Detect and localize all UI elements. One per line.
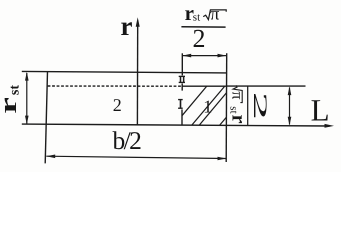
- denominator 2 rotated clockwise: [249, 92, 270, 121]
- L axis arrowhead: [325, 124, 335, 128]
- svg-text:st: st: [8, 85, 23, 95]
- dimension rst*sqrt(pi)/2 right: [289, 88, 291, 125]
- dimension rst*sqrt(pi)/2 top: [182, 55, 226, 57]
- label I: [178, 99, 183, 109]
- label II: [179, 76, 185, 83]
- dashed mid line: [48, 85, 182, 87]
- plate right edge: [225, 53, 228, 162]
- section line I-II segment above: [181, 53, 183, 75]
- left rotated label r_st: [0, 85, 23, 114]
- svg-text:st: st: [193, 12, 200, 24]
- plate top edge: [22, 71, 227, 73]
- extension line right of plate: [227, 85, 306, 87]
- svg-text:2: 2: [113, 95, 122, 115]
- svg-text:r: r: [228, 115, 250, 124]
- plate left edge: [45, 71, 47, 163]
- r axis stem: [136, 21, 138, 125]
- right rotated fraction rst*sqrt(pi)/2: [228, 85, 271, 125]
- svg-text:1: 1: [203, 96, 212, 116]
- svg-text:r: r: [121, 11, 133, 41]
- svg-text:π: π: [210, 4, 219, 24]
- dimension r_st left: [26, 73, 28, 124]
- fraction bar: [181, 26, 225, 28]
- svg-text:b/2: b/2: [113, 126, 142, 155]
- numerator rotated clockwise: [228, 85, 250, 123]
- radical sign: [203, 10, 226, 20]
- r axis arrowhead: [136, 17, 140, 27]
- svg-text:2: 2: [193, 24, 206, 53]
- fraction bar vertical: [247, 86, 249, 125]
- section line segment mid: [181, 83, 183, 90]
- hatch region 1: [182, 86, 227, 125]
- svg-text:π: π: [229, 91, 246, 99]
- plate bottom edge / L axis: [22, 124, 330, 126]
- svg-text:2: 2: [249, 92, 270, 121]
- svg-text:L: L: [311, 93, 330, 128]
- svg-text:st: st: [228, 106, 240, 113]
- dimension b/2 bottom: [46, 156, 226, 158]
- top fraction r_st sqrt(pi) / 2: [181, 1, 226, 53]
- svg-text:r: r: [0, 97, 22, 114]
- section line segment low: [181, 109, 183, 124]
- solid top of region 1: [182, 85, 227, 87]
